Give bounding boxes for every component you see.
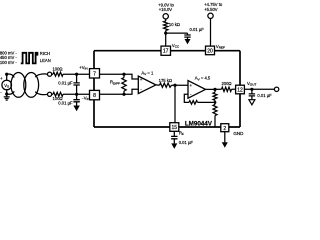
svg-text:LEAN: LEAN (40, 58, 51, 63)
svg-text:RF: RF (179, 131, 184, 137)
svg-text:RDIFF: RDIFF (110, 80, 120, 86)
svg-text:20: 20 (207, 48, 213, 54)
svg-text:+VIN: +VIN (79, 65, 87, 71)
svg-text:AV = 4.5: AV = 4.5 (195, 76, 211, 82)
svg-text:AV = 1: AV = 1 (141, 70, 154, 76)
svg-text:VREF: VREF (216, 44, 225, 50)
svg-text:+: + (0, 76, 3, 81)
svg-text:100Ω: 100Ω (52, 66, 62, 71)
svg-text:100 mV -: 100 mV - (0, 60, 17, 65)
svg-text:+5.50V: +5.50V (204, 7, 218, 12)
svg-text:-VIN: -VIN (82, 95, 89, 101)
svg-text:+: + (140, 77, 143, 82)
svg-text:VS: VS (4, 83, 9, 89)
svg-text:0.01 µF: 0.01 µF (58, 101, 73, 106)
svg-text:0.01 µF: 0.01 µF (179, 140, 194, 145)
svg-text:17: 17 (163, 49, 169, 55)
svg-text:200Ω: 200Ω (221, 81, 231, 86)
svg-text:GND: GND (233, 131, 244, 136)
svg-text:175 kΩ: 175 kΩ (159, 78, 172, 83)
svg-text:7: 7 (93, 71, 96, 77)
svg-text:+: + (190, 83, 193, 88)
svg-text:8: 8 (93, 93, 96, 99)
svg-text:10 kΩ: 10 kΩ (169, 22, 180, 27)
svg-text:+16.0V: +16.0V (159, 7, 173, 12)
svg-text:12: 12 (237, 88, 243, 94)
svg-text:RICH: RICH (40, 51, 50, 56)
svg-text:0.01 µF: 0.01 µF (257, 93, 272, 98)
svg-text:VOUT: VOUT (247, 81, 256, 87)
svg-text:15: 15 (172, 125, 178, 131)
svg-text:2: 2 (223, 126, 226, 132)
svg-text:0.01 µF: 0.01 µF (190, 27, 205, 32)
svg-text:LM9044V: LM9044V (185, 120, 213, 127)
svg-text:0.01 µF: 0.01 µF (58, 81, 73, 86)
svg-text:VCC: VCC (172, 43, 180, 49)
